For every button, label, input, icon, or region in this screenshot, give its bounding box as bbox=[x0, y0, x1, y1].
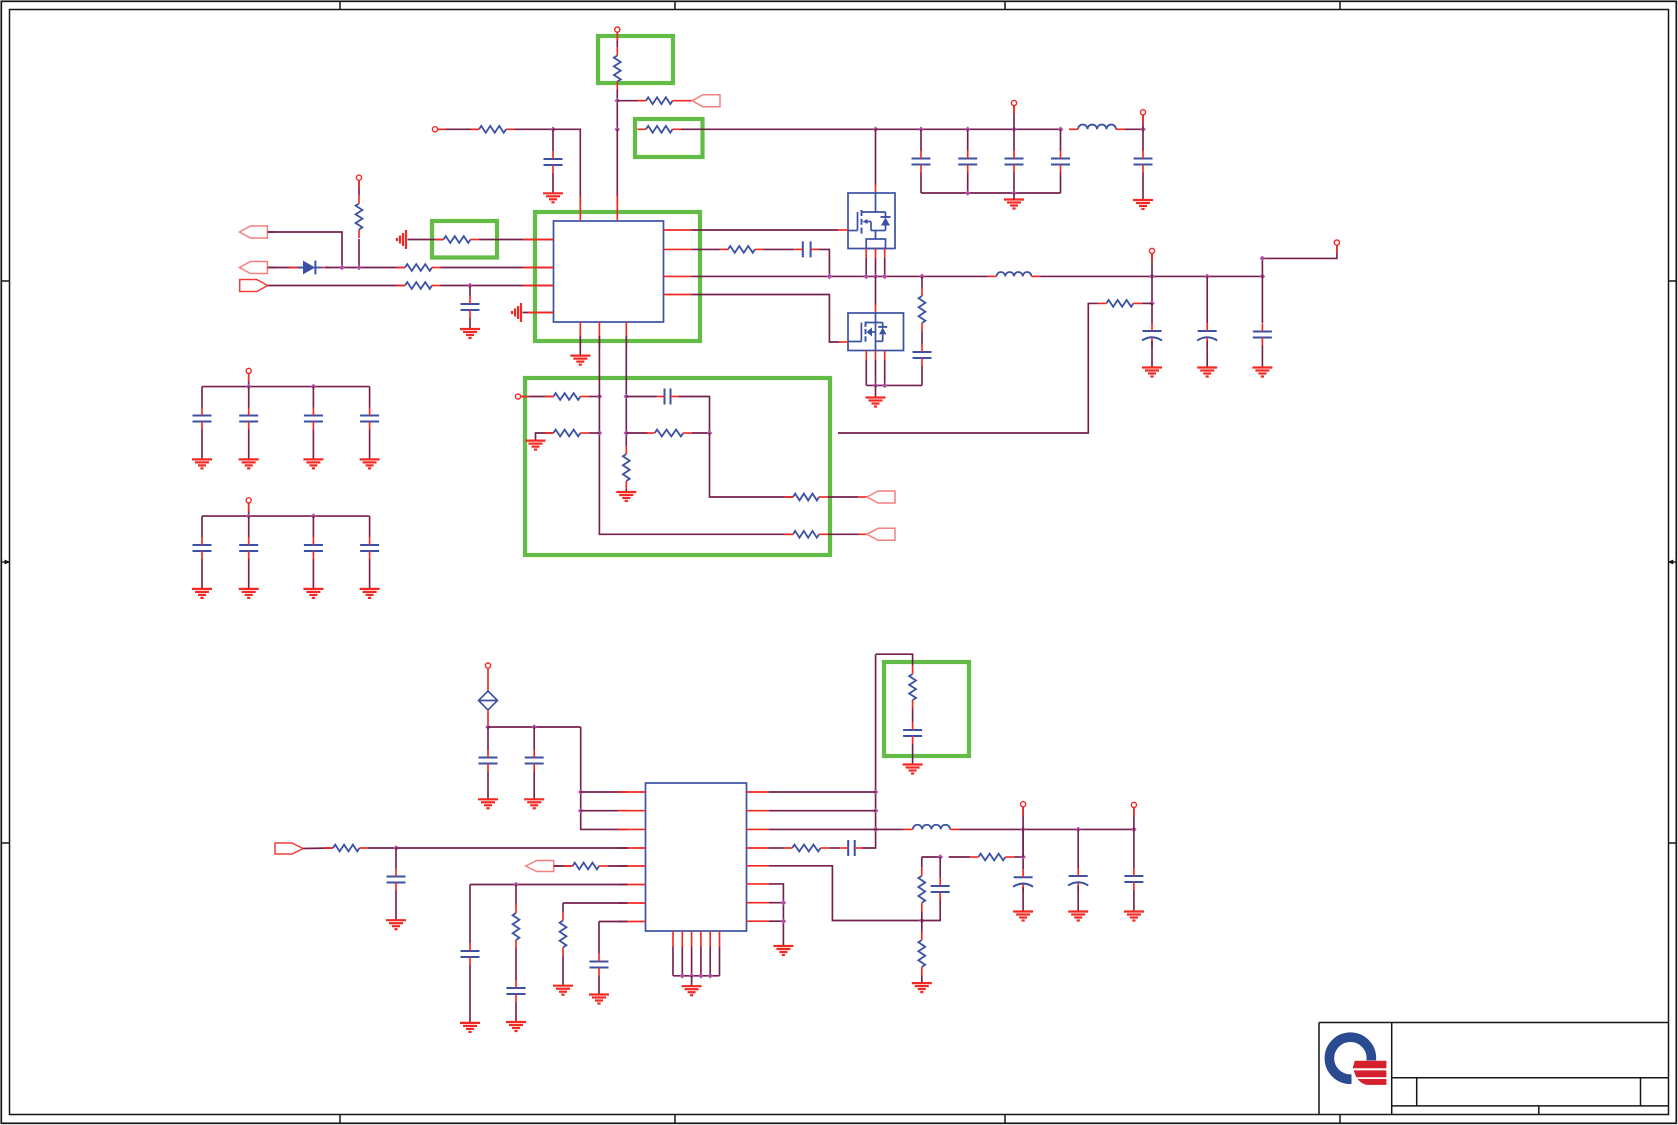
wire row5 to comp bus bbox=[769, 866, 922, 921]
wire junction down to C7 bbox=[469, 286, 471, 297]
junction U2 supply b bbox=[578, 808, 584, 814]
zone tick top 4 bbox=[1339, 1, 1341, 9]
wire right bus vertical bbox=[862, 654, 876, 848]
wire VIN to R3 bbox=[438, 128, 479, 130]
capacitor C2 bbox=[912, 151, 931, 173]
junction node C bbox=[550, 127, 556, 133]
wire vertical2 bbox=[625, 336, 627, 446]
center arrow left bbox=[1, 560, 10, 565]
wire U1 to Q2 gate bbox=[692, 295, 840, 343]
junction SW a bbox=[863, 274, 869, 280]
wire U2 bottom pin x673 bbox=[672, 947, 674, 976]
wire U2 bottom bus bbox=[673, 975, 720, 977]
wire VOUT jog to sense bbox=[1262, 246, 1337, 277]
ground bank1 c3 bbox=[303, 459, 323, 468]
diode D2 stub top bbox=[487, 669, 489, 691]
wire R13 to ground lead bbox=[536, 433, 554, 441]
wire C23 to ground bbox=[533, 772, 535, 800]
wire C11 to ground bbox=[1206, 341, 1208, 368]
company logo bbox=[1329, 1037, 1387, 1087]
junction FB tap bbox=[1149, 301, 1155, 307]
wire C6 to ground bbox=[1142, 173, 1144, 201]
op-amp U1 (regulator IC) bbox=[554, 221, 664, 322]
port FB_OUT2 (arrow left) bbox=[867, 528, 895, 540]
wire row7 down bbox=[562, 903, 564, 912]
capacitor C19 bank2 bbox=[239, 537, 258, 559]
wire C31 to ground bbox=[1077, 886, 1079, 912]
wire D1 to junctions bbox=[325, 267, 405, 269]
resistor R10 snubber bbox=[919, 288, 926, 332]
junction line2 b bbox=[356, 265, 362, 271]
junction bottom bus bbox=[689, 973, 695, 979]
wire U1 to R9 bbox=[692, 248, 720, 250]
junction VOUT b bbox=[1204, 274, 1210, 280]
terminal VDD top bbox=[615, 27, 620, 32]
wire VIN bus down to C3 bbox=[967, 129, 969, 151]
capacitor C23 bbox=[525, 750, 544, 772]
junction row6 bbox=[513, 882, 519, 888]
U2 pin stubs left bbox=[618, 792, 646, 922]
capacitor C21 bank2 bbox=[360, 537, 379, 559]
terminal 5V out lead bbox=[1142, 115, 1144, 123]
wire node C corner to U1 top pin bbox=[553, 129, 580, 203]
junction VOUT a bbox=[1149, 274, 1155, 280]
highlight box 5 (feedback network) bbox=[525, 378, 830, 555]
junction bottom bus bbox=[707, 973, 713, 979]
ground U2 right bbox=[773, 946, 793, 955]
wire bank2 c4 bot bbox=[369, 559, 371, 589]
transistor Q2 body box bbox=[848, 313, 904, 351]
junction out rail c bbox=[1131, 827, 1137, 833]
wire snubber down bbox=[921, 276, 923, 287]
zone tick bottom 1 bbox=[339, 1115, 341, 1124]
junction node A bbox=[615, 98, 621, 104]
Q1 gate stub bbox=[838, 229, 848, 231]
ground bank1 c2 bbox=[239, 459, 259, 468]
zone tick top 1 bbox=[339, 1, 341, 9]
wire comp C leg top bbox=[939, 857, 941, 878]
wire box6 feed bbox=[876, 654, 913, 666]
wire R12 to v1 bbox=[589, 396, 600, 398]
wire R21 to ground bbox=[562, 956, 564, 986]
resistor R17 bbox=[785, 494, 828, 501]
inductor L3 bbox=[904, 825, 959, 830]
wire terminal to VOUT bbox=[1151, 254, 1153, 277]
op-amp U2 (PMIC IC) bbox=[646, 783, 747, 931]
resistor R20 bbox=[513, 905, 520, 949]
capacitor C24 bbox=[387, 869, 406, 891]
junction gnd bus a bbox=[965, 190, 971, 196]
wire U2 bottom pin x682.3 bbox=[681, 947, 683, 976]
highlight box 2 (R4) bbox=[635, 119, 703, 157]
wire gnd bus stub bbox=[1013, 193, 1015, 200]
ground bank2 c4 bbox=[360, 589, 380, 598]
wire terminal to node D bbox=[1142, 115, 1144, 129]
junction pgnd a bbox=[873, 383, 879, 389]
terminal VOUT bbox=[1149, 248, 1154, 253]
port FB_OUT1 stub bbox=[858, 496, 867, 498]
ground input filter bbox=[1004, 200, 1024, 209]
terminal pull-up bbox=[356, 175, 361, 180]
capacitor C6 bbox=[1134, 151, 1153, 173]
capacitor C29 bbox=[840, 840, 863, 856]
wire AVDD to U2 pins bbox=[581, 727, 628, 829]
chassis ground pin4 bbox=[512, 303, 521, 322]
wire terminal to out rail bbox=[1022, 807, 1024, 829]
capacitor C12 bbox=[1253, 324, 1272, 346]
terminal VIN rail bbox=[1011, 100, 1016, 105]
junction bank1 a bbox=[246, 384, 252, 390]
wire R3 to junction C bbox=[515, 128, 554, 130]
capacitor C9 snubber bbox=[913, 344, 932, 366]
wire v2 to R15 bbox=[626, 432, 648, 434]
resistor R2 bbox=[638, 97, 682, 104]
wire bank1 c3 top bbox=[312, 387, 314, 408]
capacitor C17 bank1 bbox=[360, 408, 379, 430]
terminal U2 VOUT sense lead bbox=[1133, 808, 1135, 816]
wire C22 to ground bbox=[487, 772, 489, 800]
diode D2 (diamond) bbox=[479, 691, 498, 710]
wire bus c to L3 bbox=[876, 828, 904, 830]
wire C5 to gnd bus bbox=[1060, 173, 1062, 194]
resistor R16 bbox=[785, 531, 828, 538]
ground R26 bbox=[912, 983, 932, 992]
wire port to R8 bbox=[268, 285, 405, 287]
terminal U2 VOUT sense bbox=[1131, 802, 1136, 807]
chassis ground pin1 bbox=[397, 230, 406, 249]
wire port to D1 bbox=[268, 267, 303, 269]
junction R25 out bbox=[1020, 854, 1026, 860]
wire C32 to ground bbox=[1133, 890, 1135, 912]
junction node D bbox=[1140, 127, 1146, 133]
wire right gnd row8 bbox=[769, 920, 783, 922]
wire R8 to U1 pin3 bbox=[441, 285, 554, 287]
wire C10 to ground bbox=[1151, 341, 1153, 368]
wire FB tap to C10 bbox=[1151, 303, 1153, 323]
wire R10 to C9 bbox=[921, 332, 923, 345]
wire comp R leg top bbox=[921, 857, 923, 867]
resistor R18 bbox=[325, 845, 369, 852]
wire right gnd collect bbox=[769, 884, 783, 946]
junction v1 row1 bbox=[597, 394, 603, 400]
terminal FB ref bbox=[515, 394, 520, 399]
wire row6 to U2 bbox=[470, 884, 628, 886]
wire R19 to U2 bbox=[608, 865, 628, 867]
resistor R7 (in box 3) bbox=[435, 236, 479, 243]
wire out node vertical bbox=[1022, 829, 1024, 857]
wire bank2 c3 bot bbox=[312, 559, 314, 589]
wire R16 to port bbox=[828, 533, 859, 535]
wire VIN bus caps run bbox=[876, 128, 1061, 130]
wire terminal to out rail c bbox=[1133, 808, 1135, 830]
zone tick left 1 bbox=[1, 280, 9, 282]
resistor R14 bbox=[623, 446, 630, 490]
junction comp node bbox=[707, 430, 713, 436]
junction v2 row1 bbox=[624, 394, 630, 400]
wire bank1 c4 bot bbox=[369, 430, 371, 460]
terminal rail bank2 lead bbox=[248, 503, 250, 511]
inductor L1 bbox=[1069, 125, 1125, 130]
wire C9 to pgnd bus bbox=[921, 366, 923, 385]
terminal rail bank1 bbox=[246, 368, 251, 373]
capacitor C11 (pol) bbox=[1197, 323, 1217, 346]
wire C25 to ground bbox=[469, 965, 471, 1023]
title block grid bbox=[1319, 1023, 1669, 1115]
ground C27 bbox=[589, 995, 609, 1004]
ground R13 bbox=[526, 441, 546, 450]
junction AVDD b bbox=[531, 724, 537, 730]
wire C13 corner to row2 bbox=[679, 397, 710, 434]
zone tick bottom 2 bbox=[674, 1115, 676, 1124]
junction right bus a bbox=[873, 789, 879, 795]
ground bank2 c1 bbox=[192, 589, 212, 598]
ground C31 bbox=[1068, 912, 1088, 921]
wire comp top to R25 bbox=[949, 856, 970, 858]
wire bottom bus gnd stub bbox=[691, 976, 693, 986]
junction right gnd b bbox=[781, 918, 787, 924]
port FB_OUT1 (arrow left) bbox=[867, 491, 895, 503]
ground C32 bbox=[1124, 912, 1144, 921]
wire Q2 src1 to pgnd bbox=[865, 360, 867, 385]
Q1 source stubs bbox=[866, 249, 885, 259]
wire ctrl to U2 bbox=[396, 847, 628, 849]
wire R24 to comp bus bbox=[921, 911, 923, 920]
terminal U2 VOUT bbox=[1021, 802, 1026, 807]
zone tick bottom 3 bbox=[1004, 1115, 1006, 1124]
wire U2 row4 to R23 bbox=[769, 847, 784, 849]
port EN (arrow left) bbox=[692, 95, 720, 107]
resistor R25 bbox=[970, 854, 1014, 861]
junction comp top bbox=[937, 854, 943, 860]
junction right gnd a bbox=[781, 900, 787, 906]
center arrow right bbox=[1667, 560, 1676, 565]
wire SW bus bbox=[692, 275, 988, 277]
wire terminal to R5 bbox=[358, 181, 360, 195]
wire R26 to ground bbox=[921, 976, 923, 984]
junction AVDD a bbox=[485, 724, 491, 730]
terminal VOUT lead bbox=[1151, 254, 1153, 262]
wire VIN bus to Q1 drain bbox=[875, 129, 877, 186]
resistor R15 bbox=[646, 430, 692, 437]
wire bank2 c1 top bbox=[201, 516, 203, 537]
wire bank2 c2 bot bbox=[248, 559, 250, 589]
wire R1 to node A bbox=[616, 90, 618, 130]
terminal VIN input lead bbox=[438, 128, 446, 130]
wire supply a to U2 bbox=[581, 791, 628, 793]
junction node B bbox=[615, 127, 621, 133]
wire bank2 c4 top bbox=[369, 516, 371, 537]
capacitor C33 bbox=[931, 878, 950, 900]
wire row8 down bbox=[598, 922, 600, 954]
junction comp bus bbox=[919, 918, 925, 924]
wire comp bus corner bbox=[922, 892, 940, 921]
ground C26 bbox=[506, 1022, 526, 1031]
resistor R1 (in box 1) bbox=[614, 47, 621, 90]
capacitor C16 bank1 bbox=[304, 408, 323, 430]
ground R21 bbox=[553, 986, 573, 995]
ground under C7 bbox=[460, 329, 480, 338]
port EN stub bbox=[681, 100, 692, 102]
wire L2 to VOUT rail bbox=[1041, 275, 1263, 277]
terminal rail bank2 bbox=[246, 498, 251, 503]
terminal VOUT sense lead bbox=[1336, 246, 1338, 254]
wire R11 to FB tap bbox=[1142, 302, 1152, 304]
resistor R11 feedback bbox=[1098, 300, 1142, 307]
wire VIN bus down to C2 bbox=[920, 129, 922, 151]
wire L3 to out rail bbox=[959, 828, 1134, 830]
wire R17 to port bbox=[828, 496, 859, 498]
ground C24 bbox=[386, 920, 406, 929]
capacitor C30 (pol) bbox=[1013, 869, 1033, 892]
capacitor C13 comp bbox=[657, 389, 679, 405]
wire row6 R leg bbox=[515, 885, 517, 905]
wire node D to C6 bbox=[1142, 129, 1144, 151]
wire C4 to gnd bus bbox=[1013, 173, 1015, 194]
junction line2 a bbox=[339, 265, 345, 271]
wire right bus c to U2 bbox=[769, 828, 876, 830]
wire R11 down to fb line bbox=[838, 303, 1098, 433]
terminal pull-up lead bbox=[358, 181, 360, 189]
resistor R5 bbox=[356, 195, 363, 238]
junction v1 row2 bbox=[597, 430, 603, 436]
capacitor C8 bootstrap bbox=[795, 241, 819, 257]
wire bank1 c2 top bbox=[248, 387, 250, 408]
capacitor C32 bbox=[1124, 868, 1143, 890]
wire vertical1 bbox=[599, 336, 793, 534]
capacitor C20 bank2 bbox=[304, 537, 323, 559]
Q2 gate stub bbox=[839, 341, 848, 343]
wire Q1 src2 to SW bus bbox=[875, 258, 877, 276]
wire VIN bus down to C5 bbox=[1060, 129, 1062, 151]
ground C25 bbox=[460, 1023, 480, 1032]
wire R23 to C29 bbox=[829, 847, 840, 849]
Q2 source stubs bbox=[866, 351, 884, 361]
junction out rail b bbox=[1075, 827, 1081, 833]
wire U1 to Q1 gate bbox=[692, 229, 839, 231]
wire right bus b to U2 bbox=[769, 810, 876, 812]
wire pgnd bus bbox=[866, 384, 922, 386]
terminal 5V out bbox=[1140, 110, 1145, 115]
resistor R24 bbox=[918, 867, 925, 911]
wire U2 bottom pin x700.9 bbox=[700, 947, 702, 976]
junction VIN bus at Q1 drain bbox=[873, 127, 879, 133]
wire out b down bbox=[1077, 829, 1079, 868]
wire comp node down to R17 bbox=[710, 433, 794, 497]
wire port to R18 bbox=[303, 847, 333, 850]
zone tick top 3 bbox=[1004, 1, 1006, 9]
capacitor C25 bbox=[461, 943, 480, 965]
junction line3 bbox=[467, 283, 473, 289]
terminal VOUT sense bbox=[1334, 240, 1339, 245]
terminal AVDD bbox=[485, 663, 490, 668]
wire VOUT c down bbox=[1261, 276, 1263, 323]
wire C1 to ground bbox=[552, 173, 554, 193]
wire bank2 c2 top bbox=[248, 516, 250, 537]
wire C7 to ground bbox=[469, 318, 471, 329]
resistor R26 bbox=[918, 932, 925, 976]
ground box6 bbox=[903, 765, 923, 774]
wire R4 to VIN bus bbox=[681, 128, 876, 130]
resistor R19 bbox=[564, 863, 608, 870]
ground C10 bbox=[1142, 368, 1162, 377]
capacitor C18 bank2 bbox=[193, 537, 212, 559]
capacitor C4 bbox=[1005, 151, 1024, 173]
wire C3 to gnd bus bbox=[967, 173, 969, 194]
junction v2 row2 bbox=[624, 430, 630, 436]
transistor Q2 internals bbox=[848, 313, 887, 351]
junction ctrl bbox=[393, 845, 399, 851]
port CTRL_IN (arrow right) bbox=[275, 843, 303, 854]
wire row6 left leg bbox=[469, 885, 471, 944]
highlight box 4 (U1 regulator) bbox=[535, 212, 700, 341]
wire SW to Q2 drain bbox=[875, 276, 877, 305]
terminal FB ref lead bbox=[521, 396, 529, 398]
resistor R22 (in box 6) bbox=[909, 666, 916, 709]
wire R13 to v1 bbox=[589, 432, 600, 434]
wire bank1 c4 top bbox=[369, 387, 371, 408]
capacitor C28 (in box 6) bbox=[903, 722, 922, 744]
wire C8 to SW bus bbox=[819, 249, 830, 276]
inductor L2 buck bbox=[988, 272, 1041, 276]
terminal VIN input bbox=[432, 127, 437, 132]
resistor R12 bbox=[545, 393, 589, 400]
junction VIN bus C4 bbox=[1011, 127, 1017, 133]
ground bank1 c1 bbox=[192, 459, 212, 468]
wire R25 to out node bbox=[1014, 856, 1023, 858]
ground C22 bbox=[478, 799, 498, 808]
wire bank1 c1 bot bbox=[201, 430, 203, 460]
wire node B down to U1 pin bbox=[616, 129, 618, 203]
resistor R13 bbox=[545, 430, 589, 437]
capacitor C7 bbox=[461, 296, 480, 318]
wire L1 to node D bbox=[1125, 128, 1143, 130]
junction bottom bus bbox=[698, 973, 704, 979]
ground U2 exposed pad bbox=[682, 986, 702, 995]
diode D1 bbox=[289, 261, 331, 275]
Q1 drain stub bbox=[875, 184, 877, 193]
junction bank2 b bbox=[311, 513, 317, 519]
wire terminal to R12 bbox=[521, 396, 553, 398]
wire cgnd to U1 pin4 bbox=[523, 312, 554, 314]
wire VOUT b down bbox=[1206, 276, 1208, 323]
capacitor C14 bank1 bbox=[193, 408, 212, 430]
wire out a down bbox=[1022, 829, 1024, 869]
diode D2 stub bottom bbox=[487, 710, 489, 727]
terminal VDD top lead bbox=[616, 33, 618, 41]
resistor R9 bootstrap bbox=[720, 246, 764, 253]
ground bank2 c3 bbox=[303, 589, 323, 598]
zone tick right 1 bbox=[1669, 280, 1677, 282]
wire R18 to junction bbox=[368, 847, 396, 849]
port FB_OUT2 stub bbox=[858, 533, 867, 535]
U2 pin stubs bottom bbox=[673, 931, 720, 947]
junction out rail a bbox=[1020, 827, 1026, 833]
wire pgnd stub bbox=[875, 385, 877, 397]
junction VIN bus C3 bbox=[965, 127, 971, 133]
junction right bus c bbox=[873, 827, 879, 833]
wire R22 to C28 bbox=[912, 709, 914, 723]
junction VIN bus C5 bbox=[1058, 127, 1064, 133]
wire Q2 src3 to pgnd bbox=[884, 360, 886, 385]
wire terminal to bank2 bus bbox=[248, 503, 250, 516]
capacitor C22 bbox=[479, 750, 498, 772]
wire R6 to U1 pin2 bbox=[441, 267, 554, 269]
wire cgnd to box3 bbox=[408, 239, 444, 241]
wire C24 to ground bbox=[395, 891, 397, 921]
wire R9 to C8 bbox=[764, 248, 795, 250]
wire out c down bbox=[1133, 829, 1135, 868]
ground U1 bbox=[570, 356, 590, 365]
